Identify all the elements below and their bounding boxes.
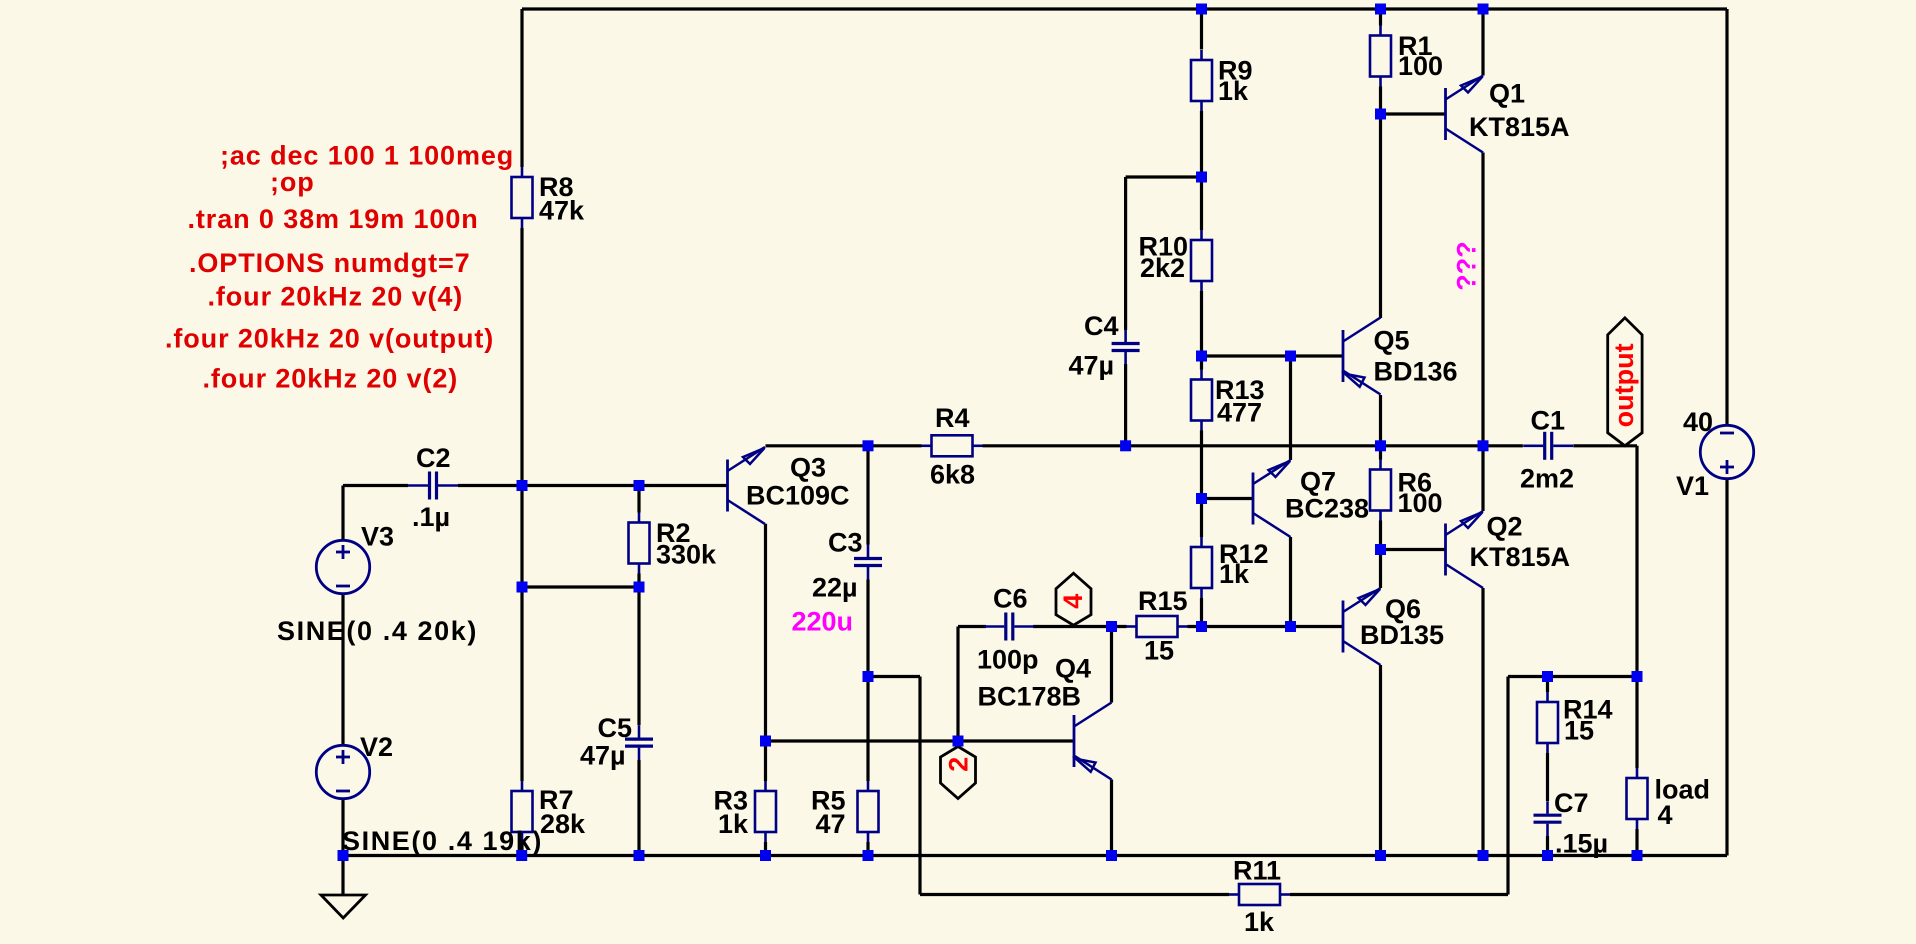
svg-text:BC178B: BC178B: [978, 682, 1082, 712]
svg-text:47µ: 47µ: [580, 741, 626, 771]
svg-text:V3: V3: [361, 522, 394, 552]
svg-text:C7: C7: [1554, 788, 1589, 818]
svg-text:SINE(0 .4 19k): SINE(0 .4 19k): [342, 826, 543, 856]
svg-text:100: 100: [1398, 488, 1443, 518]
svg-text:BD136: BD136: [1374, 357, 1458, 387]
svg-text:C4: C4: [1084, 311, 1119, 341]
svg-text:Q7: Q7: [1300, 467, 1336, 497]
svg-text:1k: 1k: [1218, 76, 1249, 106]
svg-text:R15: R15: [1138, 586, 1188, 616]
svg-text:C3: C3: [828, 528, 863, 558]
svg-text:47k: 47k: [539, 196, 585, 226]
svg-text:.15µ: .15µ: [1555, 829, 1608, 859]
svg-text:.OPTIONS numdgt=7: .OPTIONS numdgt=7: [189, 248, 471, 278]
svg-text:C6: C6: [993, 584, 1028, 614]
svg-text:BC109C: BC109C: [746, 481, 850, 511]
svg-text:1k: 1k: [718, 809, 749, 839]
svg-text:47µ: 47µ: [1069, 351, 1115, 381]
svg-text:28k: 28k: [540, 809, 586, 839]
svg-text:R11: R11: [1233, 856, 1281, 886]
svg-text:BC238: BC238: [1285, 494, 1369, 524]
svg-text:220u: 220u: [792, 607, 854, 637]
svg-text:C5: C5: [598, 713, 633, 743]
svg-text:.four 20kHz 20 v(4): .four 20kHz 20 v(4): [208, 282, 464, 312]
svg-text:SINE(0 .4 20k): SINE(0 .4 20k): [277, 616, 478, 646]
svg-text:Q4: Q4: [1055, 654, 1091, 684]
svg-text:KT815A: KT815A: [1469, 112, 1570, 142]
svg-text:Q5: Q5: [1374, 326, 1410, 356]
svg-text:1k: 1k: [1219, 559, 1250, 589]
svg-text:2k2: 2k2: [1140, 253, 1185, 283]
svg-text:100p: 100p: [977, 645, 1039, 675]
svg-text:KT815A: KT815A: [1470, 542, 1571, 572]
svg-text:output: output: [1609, 343, 1639, 427]
svg-text:BD135: BD135: [1360, 620, 1444, 650]
svg-text:C1: C1: [1531, 406, 1566, 436]
svg-text:???: ???: [1452, 241, 1482, 290]
svg-text:47: 47: [815, 809, 845, 839]
svg-text:15: 15: [1144, 636, 1174, 666]
svg-text:C2: C2: [416, 443, 451, 473]
svg-text:.1µ: .1µ: [412, 502, 450, 532]
svg-text:V2: V2: [360, 732, 393, 762]
svg-text:6k8: 6k8: [930, 460, 975, 490]
svg-text:Q1: Q1: [1489, 79, 1525, 109]
svg-text:4: 4: [1058, 594, 1088, 609]
svg-text:;op: ;op: [270, 167, 315, 197]
svg-text:V1: V1: [1676, 471, 1709, 501]
svg-text:.tran 0 38m 19m 100n: .tran 0 38m 19m 100n: [188, 204, 479, 234]
svg-text:.four 20kHz 20 v(output): .four 20kHz 20 v(output): [165, 324, 494, 354]
svg-text:Q3: Q3: [790, 453, 826, 483]
svg-text:477: 477: [1217, 398, 1262, 428]
svg-text:100: 100: [1398, 51, 1443, 81]
svg-text:1k: 1k: [1244, 907, 1275, 937]
svg-text:2m2: 2m2: [1520, 464, 1574, 494]
svg-text:R4: R4: [935, 403, 970, 433]
svg-text:Q2: Q2: [1487, 512, 1523, 542]
svg-text:330k: 330k: [656, 540, 717, 570]
svg-text:22µ: 22µ: [812, 573, 858, 603]
svg-text:40: 40: [1683, 407, 1713, 437]
svg-text:.four 20kHz 20 v(2): .four 20kHz 20 v(2): [203, 364, 459, 394]
svg-text:4: 4: [1658, 800, 1673, 830]
svg-text:15: 15: [1564, 716, 1594, 746]
svg-text:2: 2: [944, 757, 974, 772]
svg-text:;ac dec 100 1 100meg: ;ac dec 100 1 100meg: [220, 141, 514, 171]
